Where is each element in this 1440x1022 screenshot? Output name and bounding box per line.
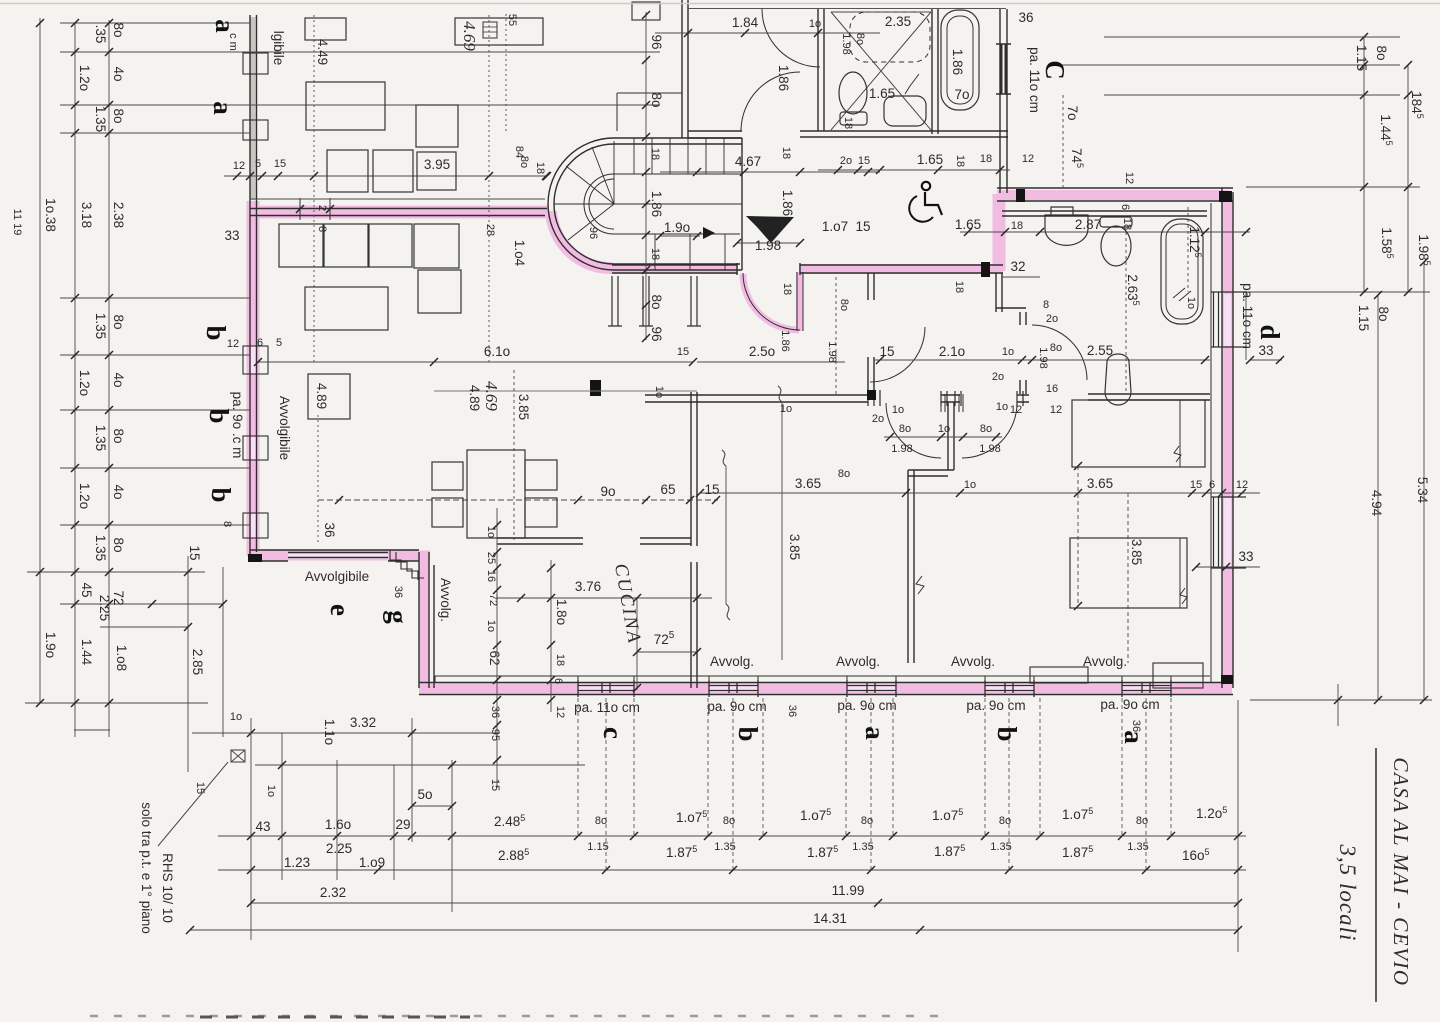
svg-text:1.6o: 1.6o xyxy=(325,817,351,832)
svg-text:33: 33 xyxy=(1258,343,1273,358)
wall shading west wall xyxy=(251,17,256,200)
lower east window glazing xyxy=(1211,497,1246,568)
lower-left window glazing xyxy=(288,553,388,558)
svg-text:1.86: 1.86 xyxy=(950,49,965,75)
svg-text:1.9o: 1.9o xyxy=(664,220,690,235)
svg-text:4.89: 4.89 xyxy=(314,383,329,409)
right wing vertical dim 70/74.5 xyxy=(1062,95,1064,188)
wall highlight: south-west wall segment xyxy=(420,553,430,688)
svg-text:6.1o: 6.1o xyxy=(484,344,510,359)
svg-text:8o: 8o xyxy=(1374,45,1389,60)
svg-text:6: 6 xyxy=(1209,479,1215,491)
stair inner straight lines xyxy=(614,174,742,234)
svg-text:pa. 11o cm: pa. 11o cm xyxy=(1240,283,1255,349)
east wall inner face xyxy=(1210,203,1212,683)
svg-text:1.35: 1.35 xyxy=(93,106,108,132)
svg-text:5o: 5o xyxy=(417,787,432,802)
curly ends xyxy=(722,386,782,620)
svg-text:1.23: 1.23 xyxy=(284,855,310,870)
small dim box top xyxy=(483,22,497,38)
bathtub niche south wall xyxy=(938,131,1008,137)
svg-text:2.55: 2.55 xyxy=(1087,343,1113,358)
long dim line 3.65 / 3.65 xyxy=(700,492,1260,494)
svg-text:Avvolg.: Avvolg. xyxy=(1083,654,1127,669)
check mark xyxy=(905,74,919,94)
svg-text:7o: 7o xyxy=(1065,105,1080,120)
svg-text:8: 8 xyxy=(1043,299,1049,311)
stair radial steps xyxy=(554,141,614,240)
svg-text:2o: 2o xyxy=(992,371,1004,383)
door swing: hall right door xyxy=(962,403,1017,458)
svg-text:8o: 8o xyxy=(838,299,850,311)
corridor north wall / bathroom south wall xyxy=(688,131,938,138)
svg-text:1o.38: 1o.38 xyxy=(43,198,58,232)
svg-text:1.98: 1.98 xyxy=(755,238,781,253)
right margin lower stack 4.94/5.34 xyxy=(1250,262,1432,726)
svg-text:4.69: 4.69 xyxy=(482,381,501,411)
entry west wall xyxy=(682,0,688,138)
svg-text:36: 36 xyxy=(392,586,404,598)
svg-text:pa. 9o cm: pa. 9o cm xyxy=(837,698,896,713)
svg-text:12: 12 xyxy=(1050,404,1062,416)
svg-text:8o: 8o xyxy=(999,815,1011,827)
svg-text:18: 18 xyxy=(953,281,965,293)
svg-text:1.9o: 1.9o xyxy=(43,632,58,658)
svg-text:8o: 8o xyxy=(111,314,126,329)
svg-text:3,5 locali: 3,5 locali xyxy=(1335,844,1360,942)
door swing: hall west door xyxy=(870,327,925,382)
bathroom1 shower box xyxy=(831,12,931,130)
svg-text:1o: 1o xyxy=(780,403,792,415)
svg-text:4.94: 4.94 xyxy=(1369,490,1384,517)
svg-text:5: 5 xyxy=(276,337,282,349)
svg-text:8o: 8o xyxy=(1136,815,1148,827)
wardrobe dim verticals (dotted) xyxy=(314,14,506,362)
svg-text:8o: 8o xyxy=(649,294,664,309)
svg-text:43: 43 xyxy=(255,819,270,834)
svg-text:1.65: 1.65 xyxy=(955,217,981,232)
svg-text:8o: 8o xyxy=(980,423,992,435)
living/bedroom divider wall xyxy=(908,470,954,663)
hall door dim lines 1.98 xyxy=(884,436,1002,438)
svg-text:12: 12 xyxy=(1022,153,1034,165)
wall highlight: top-left exterior wall xyxy=(250,206,549,219)
svg-text:1o: 1o xyxy=(964,479,976,491)
stair straight steps xyxy=(634,138,725,270)
svg-text:18: 18 xyxy=(1121,218,1133,230)
svg-text:15: 15 xyxy=(187,545,202,560)
svg-text:36: 36 xyxy=(786,705,798,717)
svg-text:lgibile: lgibile xyxy=(271,31,286,66)
svg-text:3.85: 3.85 xyxy=(787,534,802,560)
svg-text:Avvolgibile: Avvolgibile xyxy=(305,569,369,584)
svg-text:2.1o: 2.1o xyxy=(939,344,965,359)
svg-text:18: 18 xyxy=(954,155,966,167)
svg-text:15: 15 xyxy=(194,782,206,794)
svg-text:pa. 9o cm: pa. 9o cm xyxy=(707,699,766,714)
svg-text:8o: 8o xyxy=(854,33,866,45)
svg-text:36: 36 xyxy=(1018,10,1033,25)
svg-text:29: 29 xyxy=(395,817,410,832)
svg-text:Avvolg.: Avvolg. xyxy=(438,578,453,622)
svg-text:12: 12 xyxy=(227,338,239,350)
west wall window boxes xyxy=(243,53,268,74)
kitchen/living divider wall xyxy=(691,392,697,688)
dining vertical dim 3.85 xyxy=(513,370,515,540)
divider upper stub + under-stair closet xyxy=(608,276,701,326)
svg-text:1.15: 1.15 xyxy=(587,841,608,853)
svg-text:6: 6 xyxy=(1119,204,1131,210)
living room vertical dim with curls xyxy=(726,402,782,660)
svg-text:2o: 2o xyxy=(1046,313,1058,325)
bedroom1 closet row xyxy=(327,150,368,192)
svg-text:1.15: 1.15 xyxy=(1356,305,1371,331)
svg-text:3.76: 3.76 xyxy=(575,579,601,594)
svg-text:33: 33 xyxy=(1238,549,1253,564)
svg-text:6: 6 xyxy=(552,678,564,684)
svg-text:2.87: 2.87 xyxy=(1075,217,1101,232)
svg-text:1.98: 1.98 xyxy=(891,443,912,455)
svg-text:1.44: 1.44 xyxy=(79,639,94,666)
svg-text:1.35: 1.35 xyxy=(1127,841,1148,853)
svg-text:18: 18 xyxy=(980,153,992,165)
south exterior wall black lines xyxy=(419,683,1233,695)
kitchen north wall xyxy=(497,538,691,544)
corridor dim line 1.90/1.98 xyxy=(660,236,800,243)
svg-text:1.86: 1.86 xyxy=(649,191,664,217)
svg-text:1o: 1o xyxy=(1002,346,1014,358)
svg-text:4o: 4o xyxy=(111,372,126,387)
dim line 2.50 xyxy=(697,361,845,363)
svg-text:2.25: 2.25 xyxy=(97,595,112,621)
svg-text:15: 15 xyxy=(1190,479,1202,491)
svg-text:95: 95 xyxy=(489,729,501,741)
svg-text:8o: 8o xyxy=(1376,306,1391,321)
svg-text:8: 8 xyxy=(316,226,328,232)
wall highlight: south exterior wall xyxy=(419,684,1232,694)
bathroom2 bathtub xyxy=(1161,219,1203,324)
kitchen left vertical dims xyxy=(497,508,551,788)
svg-text:18: 18 xyxy=(554,654,566,666)
dining width dim 6.10 xyxy=(258,361,693,363)
shaft box at top edge xyxy=(632,2,660,20)
wall between hall rooms xyxy=(948,402,954,470)
svg-text:1.1o: 1.1o xyxy=(322,719,337,745)
bathroom1 bathtub dashed xyxy=(850,12,930,62)
right wing dim line 2.87 xyxy=(960,231,1250,233)
direction arrow small xyxy=(703,227,715,239)
top wall above bathroom xyxy=(688,8,1006,10)
svg-text:5.34: 5.34 xyxy=(1415,477,1430,504)
svg-text:65: 65 xyxy=(660,482,675,497)
svg-text:4.49: 4.49 xyxy=(315,39,330,65)
top wall dim line xyxy=(250,198,545,200)
squiggle break marks xyxy=(916,576,1187,604)
svg-text:1o: 1o xyxy=(1185,297,1197,309)
svg-text:3.95: 3.95 xyxy=(424,157,450,172)
svg-text:96: 96 xyxy=(649,34,664,49)
svg-text:1.84: 1.84 xyxy=(732,15,759,30)
window C glazing xyxy=(1002,44,1006,94)
svg-text:3.65: 3.65 xyxy=(1087,476,1113,491)
svg-text:18: 18 xyxy=(649,248,661,260)
svg-text:b: b xyxy=(992,726,1022,741)
bathroom2 south wall / hall walls xyxy=(645,394,1210,402)
svg-text:1o: 1o xyxy=(485,620,497,632)
svg-text:CASA AL MAI - CEVIO: CASA AL MAI - CEVIO xyxy=(1389,757,1413,986)
svg-text:2.35: 2.35 xyxy=(885,14,911,29)
west exterior wall (double line) xyxy=(250,15,257,558)
north window wall (room C) xyxy=(996,9,1011,193)
svg-text:1o: 1o xyxy=(485,526,497,538)
bathroom2 washbasin xyxy=(1045,207,1088,245)
svg-text:8o: 8o xyxy=(111,428,126,443)
east exterior wall (double line) xyxy=(1222,188,1233,688)
left margin horizontal tick lines xyxy=(25,23,660,730)
window d glazing on east wall xyxy=(1211,292,1247,347)
svg-text:6: 6 xyxy=(257,337,263,349)
svg-text:2.38: 2.38 xyxy=(111,202,126,228)
svg-text:e: e xyxy=(325,604,355,616)
svg-text:g: g xyxy=(383,610,413,624)
svg-text:3.32: 3.32 xyxy=(350,715,376,730)
svg-text:1o: 1o xyxy=(996,401,1008,413)
black cap marks xyxy=(248,189,1233,684)
svg-text:16: 16 xyxy=(485,570,497,582)
door swing: bathroom2 door xyxy=(1032,325,1087,380)
svg-text:8o: 8o xyxy=(723,815,735,827)
wheelchair symbol xyxy=(909,182,942,222)
svg-text:15: 15 xyxy=(858,155,870,167)
svg-text:72: 72 xyxy=(111,590,126,605)
svg-text:12: 12 xyxy=(233,160,245,172)
svg-text:18: 18 xyxy=(842,117,854,129)
svg-text:1.o8: 1.o8 xyxy=(114,645,129,671)
svg-text:36: 36 xyxy=(1130,720,1142,732)
svg-text:36: 36 xyxy=(322,522,337,537)
bathroom2 toilet xyxy=(1100,217,1132,227)
bathroom2 north inner wall xyxy=(1002,211,1207,216)
svg-text:1o: 1o xyxy=(653,386,665,398)
bottom dim block verticals xyxy=(251,700,1238,952)
svg-text:a: a xyxy=(210,19,240,33)
svg-text:8o: 8o xyxy=(111,537,126,552)
bedroom2 bed top xyxy=(1072,400,1205,467)
top edge scan line xyxy=(0,3,1440,5)
svg-text:pa. 11o cm: pa. 11o cm xyxy=(1027,47,1042,113)
svg-text:1.8o: 1.8o xyxy=(554,599,569,625)
wall highlight: corridor south wall right of door xyxy=(799,264,1003,274)
svg-text:1.86: 1.86 xyxy=(776,65,791,91)
entry dim line 1.84 xyxy=(655,32,880,34)
svg-text:5: 5 xyxy=(255,158,261,170)
right wing dim 1.125 xyxy=(1187,207,1189,292)
title underline xyxy=(1375,748,1377,1002)
corridor dim line 1.07 xyxy=(818,169,1010,171)
svg-text:1.35: 1.35 xyxy=(714,841,735,853)
kitchen dim 3.76 xyxy=(497,597,712,599)
window d pa.110 dim ticks xyxy=(1245,292,1247,360)
svg-text:18: 18 xyxy=(1011,220,1023,232)
svg-text:36: 36 xyxy=(489,706,501,718)
wall highlight: left exterior wall xyxy=(247,201,260,556)
svg-text:2.5o: 2.5o xyxy=(749,344,775,359)
door swing: hall left door xyxy=(886,403,941,458)
svg-text:12: 12 xyxy=(554,706,566,718)
svg-text:solo tra p.t. e 1° piano: solo tra p.t. e 1° piano xyxy=(139,802,154,933)
svg-text:3.18: 3.18 xyxy=(79,202,94,228)
svg-text:1.98: 1.98 xyxy=(979,443,1000,455)
corridor south wall (double line) xyxy=(612,263,1003,275)
svg-text:4o: 4o xyxy=(111,484,126,499)
east wall lower window dim xyxy=(1196,566,1260,568)
svg-text:c: c xyxy=(598,727,628,739)
wall dim near window d xyxy=(1250,359,1282,361)
svg-text:55: 55 xyxy=(506,14,518,26)
stair straight flight walls xyxy=(614,138,742,270)
svg-text:45: 45 xyxy=(79,582,94,597)
top wall window ticks xyxy=(300,198,330,220)
roller box band along south wall xyxy=(435,675,1210,677)
right-wing north wall (double line) xyxy=(997,188,1233,201)
svg-text:33: 33 xyxy=(224,228,239,243)
svg-text:1o: 1o xyxy=(809,18,821,30)
bedroom1 wardrobe top xyxy=(305,18,346,40)
svg-text:8o: 8o xyxy=(838,468,850,480)
south wall window frames xyxy=(578,680,1171,697)
svg-text:18: 18 xyxy=(781,283,793,295)
bedroom2 bed bottom xyxy=(1070,538,1187,608)
svg-text:3.65: 3.65 xyxy=(795,476,821,491)
svg-text:15: 15 xyxy=(879,344,894,359)
right margin dim stack xyxy=(1052,37,1430,292)
svg-text:2o: 2o xyxy=(840,155,852,167)
svg-text:8o: 8o xyxy=(899,423,911,435)
svg-text:15: 15 xyxy=(704,482,719,497)
door swing: corridor north door xyxy=(741,72,800,131)
bathroom1 west wall xyxy=(818,9,824,131)
hall west wall xyxy=(868,273,874,394)
bedroom1 bed xyxy=(306,82,385,130)
svg-text:11.99: 11.99 xyxy=(832,883,865,898)
north triangle solid xyxy=(746,216,794,243)
bottom window extension lines (dashed) xyxy=(578,698,1171,870)
svg-text:1o: 1o xyxy=(230,711,242,723)
kitchen dim 90/65 xyxy=(318,499,718,501)
wall highlight: right-wing north wall xyxy=(997,190,1229,200)
svg-text:RHS 10/ 10: RHS 10/ 10 xyxy=(160,853,175,923)
svg-text:1.65: 1.65 xyxy=(917,152,943,167)
svg-text:12: 12 xyxy=(1236,479,1248,491)
svg-text:1.2o: 1.2o xyxy=(77,483,92,509)
south-west wall black lines xyxy=(250,550,434,688)
svg-text:1.98: 1.98 xyxy=(1037,347,1049,368)
hall door jamb pillars xyxy=(868,390,1023,406)
svg-text:4.89: 4.89 xyxy=(467,385,482,411)
svg-text:3.85: 3.85 xyxy=(516,394,531,420)
bottom scan dashes xyxy=(90,1015,945,1018)
svg-text:1.2o: 1.2o xyxy=(77,370,92,396)
svg-text:11 19: 11 19 xyxy=(11,209,23,236)
wall highlight: lower-left exterior wall xyxy=(251,551,430,561)
corridor dim line 4.67 xyxy=(660,171,880,173)
stair vertical dimension line xyxy=(645,12,647,340)
stair tower outer wall arcs xyxy=(548,138,614,270)
top-left room dimension line 3.95 xyxy=(224,175,546,177)
bathroom1 east wall xyxy=(932,9,938,134)
column detail with X xyxy=(231,750,245,762)
svg-text:8o: 8o xyxy=(595,815,607,827)
kitchen dim 72.5 xyxy=(637,598,697,690)
bottom dim block horizontals xyxy=(190,836,1246,930)
stair upper niche lines xyxy=(617,93,682,131)
svg-text:pa. 9o cm: pa. 9o cm xyxy=(966,698,1025,713)
svg-text:18: 18 xyxy=(780,147,792,159)
svg-text:b: b xyxy=(204,408,234,423)
roller shutter boxes SE xyxy=(1030,667,1088,683)
wall highlight: right-wing west wall xyxy=(993,194,1006,271)
right wing dim 2.635 xyxy=(1125,232,1127,394)
svg-text:18: 18 xyxy=(534,162,546,174)
svg-text:1o: 1o xyxy=(265,785,277,797)
svg-text:1.35: 1.35 xyxy=(990,841,1011,853)
north-west exterior wall (double line) xyxy=(250,209,547,216)
svg-text:pa. 9o cm: pa. 9o cm xyxy=(1100,697,1159,712)
svg-text:9o: 9o xyxy=(600,484,615,499)
hall dims 32 / 2.10 xyxy=(874,277,1040,360)
svg-text:1.98: 1.98 xyxy=(840,33,852,54)
door swing: entry top door xyxy=(762,9,820,67)
dining chairs xyxy=(432,462,463,490)
svg-text:b: b xyxy=(206,487,236,502)
svg-text:8o: 8o xyxy=(649,92,664,107)
leader line to RHS note xyxy=(158,762,228,846)
svg-text:Avvolg.: Avvolg. xyxy=(710,654,754,669)
svg-text:8o: 8o xyxy=(1050,342,1062,354)
svg-text:C: C xyxy=(1040,60,1070,80)
closet wall below corridor xyxy=(996,273,1026,394)
bathroom1 washbasin xyxy=(884,96,926,126)
dining table xyxy=(467,450,525,538)
bathroom2 bidet xyxy=(1105,354,1131,405)
svg-text:4.67: 4.67 xyxy=(735,154,761,169)
svg-text:84: 84 xyxy=(513,146,525,158)
svg-text:1.15: 1.15 xyxy=(1354,45,1369,71)
svg-text:1.86: 1.86 xyxy=(780,190,795,216)
hall west vertical dim xyxy=(835,277,837,394)
box 4.89 xyxy=(308,374,350,419)
svg-text:1.2o: 1.2o xyxy=(77,65,92,91)
svg-text:Avvolg.: Avvolg. xyxy=(951,654,995,669)
svg-text:2o: 2o xyxy=(872,413,884,425)
svg-text:8o: 8o xyxy=(861,815,873,827)
svg-text:16: 16 xyxy=(1046,383,1058,395)
svg-text:14.31: 14.31 xyxy=(813,911,847,926)
svg-text:1.o7: 1.o7 xyxy=(822,219,848,234)
room2 closet row xyxy=(279,224,323,267)
svg-text:1.35: 1.35 xyxy=(93,535,108,561)
dim line 3.32 / 50 xyxy=(192,733,585,806)
svg-text:a: a xyxy=(860,726,890,740)
pale window fills on south wall xyxy=(578,684,1171,692)
step detail g xyxy=(390,550,424,580)
svg-text:1.o9: 1.o9 xyxy=(359,855,385,870)
wall highlight: corridor south wall left of door xyxy=(612,264,738,274)
wall highlight: east exterior wall xyxy=(1223,196,1233,688)
svg-text:d: d xyxy=(1255,324,1285,339)
svg-text:1.o4: 1.o4 xyxy=(512,240,527,267)
dotted extension left wing xyxy=(317,415,319,545)
